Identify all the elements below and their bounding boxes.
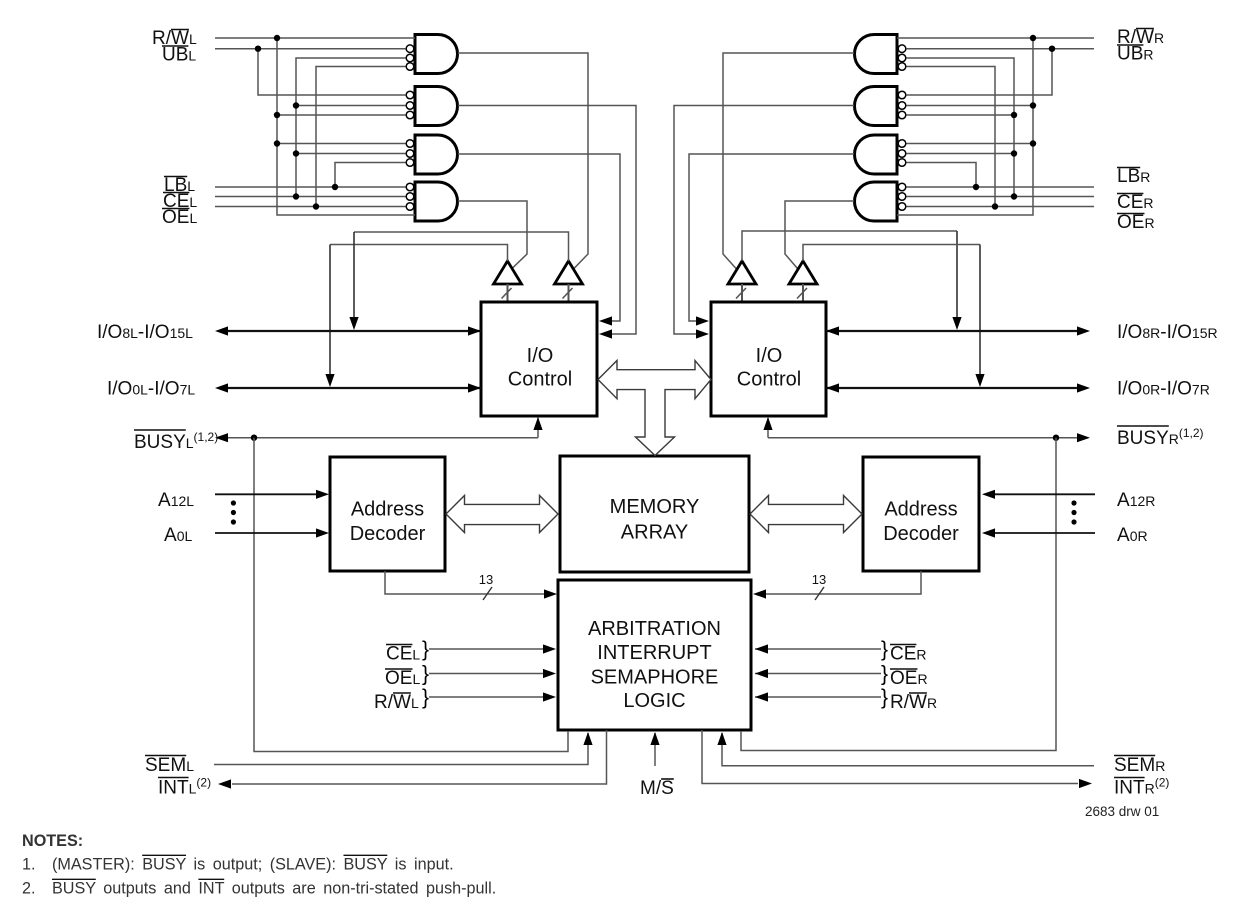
wire G1L output to buffer T2 enable (458, 53, 588, 269)
bus slash T2 (563, 288, 573, 299)
svg-text:CER: CER (890, 644, 927, 665)
wire A0L (215, 532, 318, 534)
svg-text:(MASTER): BUSY is output; (SLA: (MASTER): BUSY is output; (SLAVE): BUSY … (52, 856, 454, 874)
wire A12R (993, 493, 1095, 495)
wire CEL to arbitration (429, 648, 545, 650)
svg-text:LBR: LBR (1117, 166, 1150, 187)
tri-state buffer T1 (494, 261, 522, 284)
wire T3 output rail to I/O8-15 bus (742, 231, 957, 261)
wire T4 output rail to I/O0-7 bus (803, 245, 980, 262)
svg-text:}: } (881, 663, 888, 686)
I/O Control block left U1 (481, 302, 597, 416)
svg-text:Decoder: Decoder (350, 523, 426, 545)
wire LBL vertical (335, 163, 406, 188)
svg-text:1.: 1. (22, 856, 36, 874)
wire G2L output to IO control (458, 106, 636, 335)
svg-text:NOTES:: NOTES: (22, 832, 83, 850)
wire G1R output to buffer T3 enable (723, 53, 854, 269)
AND gate G3R (855, 135, 897, 174)
bus slash T3 (736, 288, 746, 299)
svg-text:}: } (881, 686, 888, 709)
wire OER line (906, 206, 1094, 208)
svg-text:I/O0R-I/O7R: I/O0R-I/O7R (1117, 379, 1210, 400)
svg-text:LOGIC: LOGIC (623, 690, 685, 712)
svg-text:CER: CER (1117, 192, 1154, 213)
hollow arrow memory to decoder-right (750, 496, 862, 533)
wire T2 output rail to I/O8-15 bus (354, 232, 569, 261)
wire LBL line (215, 186, 406, 188)
wire R/WR vertical bus (897, 38, 1033, 215)
svg-text:A12R: A12R (1117, 490, 1155, 511)
svg-text:OEL: OEL (162, 207, 197, 228)
wire CEL to G3L (296, 153, 406, 155)
svg-text:Address: Address (884, 499, 957, 521)
AND gate G3L (415, 135, 457, 174)
bus slash right (815, 587, 824, 600)
AND gate G1L (415, 35, 458, 74)
ARBITRATION INTERRUPT SEMAPHORE LOGIC block U6 (558, 580, 751, 730)
wire BUSYR (767, 418, 769, 438)
node BUSYR junction (1053, 435, 1059, 441)
svg-text:I/O: I/O (527, 345, 554, 367)
svg-text:}: } (881, 638, 888, 661)
G4R input bubbles (898, 183, 906, 191)
hollow T arrow between I/O controls and memory array (598, 361, 711, 456)
wire R/WR to G2R (906, 105, 1033, 107)
wire UBR line (906, 48, 1094, 50)
AND gate G1R (855, 35, 897, 74)
wire OER to arbitration (755, 673, 881, 675)
G1L input bubbles (406, 45, 414, 53)
svg-text:BUSY outputs and INT outputs a: BUSY outputs and INT outputs are non-tri… (52, 880, 496, 898)
wire A12L (215, 493, 318, 495)
svg-text:A0R: A0R (1117, 525, 1148, 546)
AND gate G2L (415, 87, 458, 126)
wire CEL vertical (296, 58, 406, 197)
svg-text:Control: Control (508, 369, 572, 391)
AND gate G4R (855, 182, 897, 221)
wire M/S input (654, 733, 656, 766)
wire R/WL to G3L (277, 143, 406, 145)
svg-text:CEL: CEL (386, 644, 420, 665)
svg-text:UBL: UBL (162, 45, 196, 66)
wire R/WL to G2L (277, 114, 406, 116)
node R/WR tap (1030, 35, 1036, 41)
node BUSYL junction (251, 435, 257, 441)
wire R/WL vertical bus (277, 38, 415, 215)
svg-text:A12L: A12L (158, 490, 194, 511)
wire I/O0L-I/O7L bus (228, 387, 481, 389)
node R/WL tap (274, 35, 280, 41)
wire 13-bit bus right (764, 571, 921, 594)
wire R/WL to arbitration (429, 696, 545, 698)
svg-text:I/O0L-I/O7L: I/O0L-I/O7L (107, 379, 195, 400)
svg-text:SEMR: SEMR (1114, 755, 1165, 776)
svg-text:13: 13 (812, 572, 826, 587)
wire CER to arbitration (755, 648, 881, 650)
svg-text:I/O8L-I/O15L: I/O8L-I/O15L (97, 322, 193, 343)
wire OEL line (215, 206, 406, 208)
wire R/WR to G3R (906, 143, 1033, 145)
wire T1 output rail to I/O0-7 bus (330, 245, 508, 262)
wire SEML (214, 733, 588, 765)
AND gate G4L (415, 182, 458, 221)
svg-text:2.: 2. (22, 880, 36, 898)
wire R/WL line (215, 37, 415, 39)
G4L input bubbles (406, 183, 414, 191)
svg-text:ARBITRATION: ARBITRATION (588, 618, 721, 640)
wire OEL to arbitration (429, 673, 545, 675)
bus slash left (483, 587, 492, 600)
svg-text:}: } (422, 686, 429, 709)
wire SEMR (722, 733, 1094, 766)
svg-text:SEML: SEML (145, 755, 194, 776)
tri-state buffer T2 (555, 261, 583, 284)
wire R/WR to arbitration (755, 696, 881, 698)
svg-text:I/O8R-I/O15R: I/O8R-I/O15R (1117, 322, 1218, 343)
G3L input bubbles (406, 140, 414, 148)
wire G3L output to IO control (458, 154, 620, 321)
svg-text:OEL: OEL (385, 668, 420, 689)
G3R input bubbles (898, 140, 906, 148)
wire LBR line (906, 186, 1094, 188)
wire CEL to G2L (296, 105, 406, 107)
wire G2R output to IO control (674, 106, 854, 335)
svg-text:2683 drw 01: 2683 drw 01 (1085, 804, 1159, 819)
svg-text:Control: Control (737, 369, 801, 391)
tri-state buffer T4 (789, 261, 817, 284)
ellipsis dots left address (231, 500, 236, 505)
G2L input bubbles (406, 91, 414, 99)
svg-text:UBR: UBR (1117, 44, 1154, 65)
svg-text:Decoder: Decoder (883, 523, 959, 545)
svg-text:R/WR: R/WR (890, 692, 937, 713)
wire UBR vertical (906, 49, 1052, 95)
wire CEL line (215, 196, 406, 198)
wire UBL vertical (258, 49, 406, 95)
wire G3R output to IO control (689, 154, 854, 321)
wire I/O8L-I/O15L bus (228, 330, 481, 332)
svg-text:SEMAPHORE: SEMAPHORE (591, 667, 719, 689)
wire CER to G3R (906, 153, 1014, 155)
svg-text:A0L: A0L (164, 525, 192, 546)
Address Decoder block left U4 (330, 457, 445, 571)
wire I/O0R-I/O7R bus (826, 387, 1077, 389)
svg-text:13: 13 (479, 572, 493, 587)
wire CER line (906, 196, 1094, 198)
wire UBL line (215, 48, 406, 50)
wire R/WR line (897, 37, 1094, 39)
wire LBR vertical (906, 163, 976, 188)
wire T1 stem to IO control (507, 284, 509, 302)
wire T2 stem to IO control (568, 284, 570, 302)
svg-text:MEMORY: MEMORY (610, 496, 700, 518)
bus slash T4 (797, 288, 807, 299)
G2R input bubbles (898, 91, 906, 99)
I/O Control block right U2 (711, 302, 826, 416)
wire BUSYL feedback to arbitration (254, 438, 568, 752)
wire INTL (232, 730, 607, 784)
svg-text:OER: OER (1117, 212, 1155, 233)
wire A0R (993, 532, 1095, 534)
Address Decoder block right U5 (863, 457, 979, 571)
bus slash T1 (502, 288, 512, 299)
wire G4L output to buffer T1 enable (458, 201, 527, 269)
svg-text:ARRAY: ARRAY (621, 522, 688, 544)
AND gate G2R (855, 87, 897, 126)
wire CER vertical (906, 58, 1014, 197)
svg-text:Address: Address (351, 499, 424, 521)
wire CER to G2R (906, 114, 1014, 116)
wire OER vertical (906, 67, 995, 207)
wire BUSYL (228, 437, 538, 439)
svg-text:M/S: M/S (640, 778, 674, 799)
svg-text:}: } (422, 638, 429, 661)
wire T3 stem to IO control (741, 284, 743, 302)
wire T4 stem to IO control (802, 284, 804, 302)
MEMORY ARRAY block U3 (560, 456, 749, 572)
tri-state buffer T3 (728, 261, 756, 284)
wire BUSYR feedback to arbitration (741, 438, 1056, 751)
G1R input bubbles (898, 45, 906, 53)
hollow arrow decoder-left to memory (446, 496, 558, 533)
wire 13-bit bus left (385, 571, 546, 594)
wire OEL vertical (316, 67, 406, 207)
wire G4R output to buffer T4 enable (785, 201, 854, 269)
svg-text:OER: OER (890, 668, 928, 689)
svg-text:R/WL: R/WL (374, 692, 419, 713)
wire I/O8R-I/O15R bus (826, 330, 1077, 332)
svg-text:}: } (422, 663, 429, 686)
svg-text:I/O: I/O (756, 345, 783, 367)
note overlines (142, 854, 186, 856)
svg-text:INTERRUPT: INTERRUPT (597, 642, 711, 664)
ellipsis dots right address (1071, 500, 1076, 505)
wire INTR (702, 730, 1078, 784)
